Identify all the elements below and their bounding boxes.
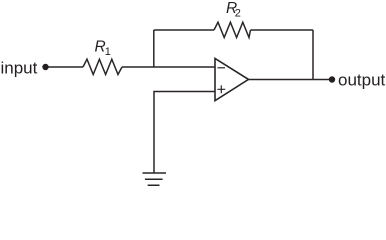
resistor R1 — [83, 59, 122, 74]
ground — [143, 173, 167, 185]
op-amp inverting pin label - — [218, 67, 226, 69]
wire feedback top right — [251, 29, 314, 31]
svg-text:input: input — [1, 58, 38, 77]
op-amp noninverting pin label + — [217, 85, 225, 93]
wire feedback top left — [154, 29, 214, 31]
wire feedback right vertical — [312, 30, 314, 80]
svg-text:1: 1 — [105, 46, 111, 58]
wire feedback tap vertical — [153, 30, 155, 67]
resistor R2 — [214, 22, 251, 37]
node output terminal dot — [329, 76, 335, 82]
wire R1 to op-amp inverting input — [122, 66, 215, 68]
svg-text:output: output — [338, 70, 386, 89]
wire output — [249, 79, 333, 81]
wire input to R1 — [46, 66, 84, 68]
op-amp U1 — [215, 59, 249, 101]
wire op-amp noninverting input — [154, 92, 215, 174]
svg-text:2: 2 — [235, 8, 241, 20]
node input terminal dot — [42, 64, 48, 70]
